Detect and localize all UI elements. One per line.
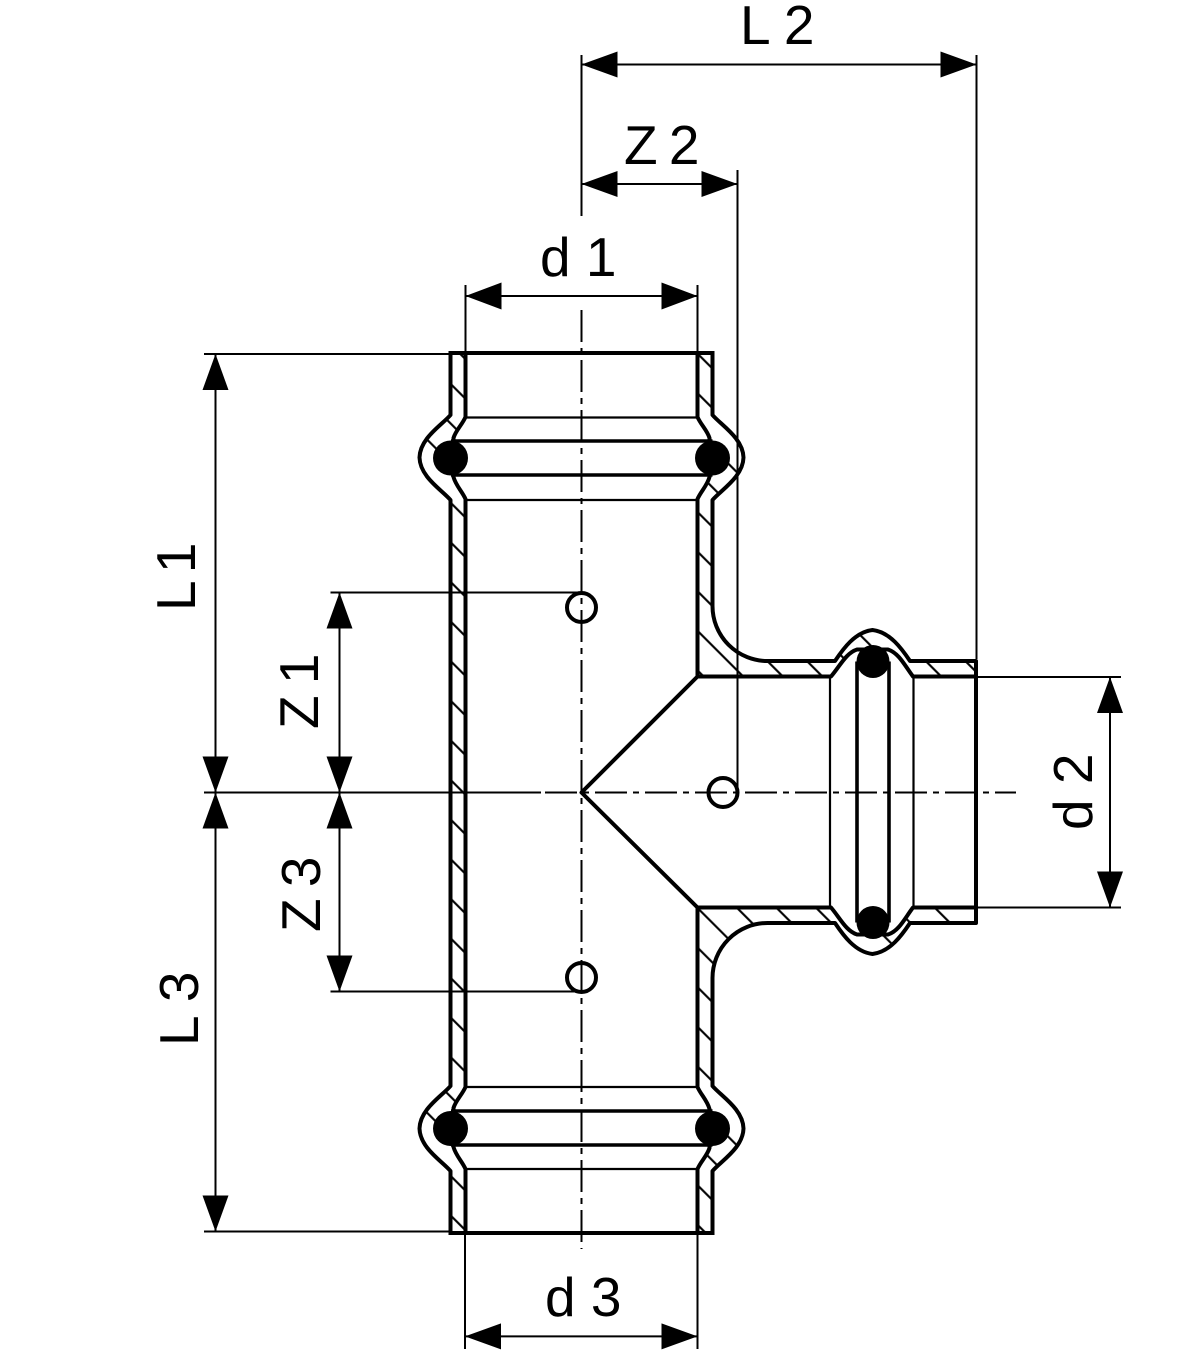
svg-text:d 3: d 3 [545,1266,621,1328]
svg-text:d 2: d 2 [1042,754,1104,830]
svg-text:Z 3: Z 3 [270,858,332,932]
svg-text:d 1: d 1 [540,226,616,288]
svg-text:Z 1: Z 1 [268,656,330,729]
svg-text:L 1: L 1 [145,545,207,611]
svg-text:L 3: L 3 [148,972,210,1046]
svg-text:L 2: L 2 [740,0,814,56]
svg-text:Z 2: Z 2 [624,114,697,176]
